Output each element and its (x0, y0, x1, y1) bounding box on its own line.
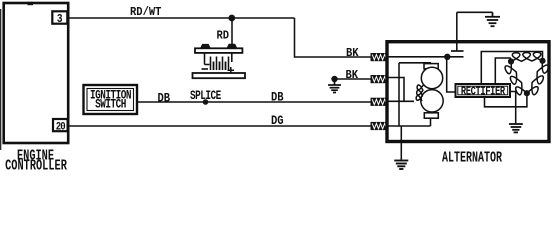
wire corner RD/WT down to BK row (295, 18, 372, 57)
stator winding left coil (505, 62, 527, 95)
wire BK1 inside to capacitor junction (388, 56, 464, 58)
node junction dot on RD/WT wire (228, 15, 235, 22)
stator winding top coil (511, 52, 543, 61)
pin 20 box (53, 119, 68, 134)
wire bottom brush to DG (430, 118, 432, 126)
ground top right (485, 12, 500, 26)
wire junction down to rectifier left (447, 57, 456, 92)
slip ring top circle (421, 67, 442, 88)
svg-text:SWITCH: SWITCH (95, 97, 126, 112)
svg-text:BK: BK (346, 48, 359, 61)
capacitor to ground (451, 12, 464, 51)
rotor feed wire from DB/BK2 (388, 63, 430, 126)
connector terminal BK2 (371, 75, 389, 83)
battery (193, 44, 246, 78)
wire case ground branch (400, 126, 402, 160)
stator phase wire A to rectifier (495, 58, 511, 84)
node stator vertex C dot (524, 90, 530, 96)
node capacitor junction dot (444, 54, 450, 60)
svg-text:ALTERNATOR: ALTERNATOR (442, 149, 502, 167)
wire RD from junction down to battery (231, 18, 233, 44)
ground under alternator (394, 161, 408, 170)
wire BK2 inside (388, 78, 404, 102)
rectifier output to ground (510, 92, 516, 124)
node stator vertex B dot (539, 58, 545, 64)
stator winding right coil (527, 61, 549, 95)
wire to top brush (399, 63, 430, 65)
rectifier box (456, 84, 511, 99)
ignition switch box (84, 85, 138, 114)
svg-text:RD: RD (217, 30, 230, 43)
wire DG from pin 20 to connector (68, 125, 371, 127)
wire DB inside (388, 100, 414, 102)
node stator vertex A dot (508, 58, 514, 64)
ground under BK2 dot (328, 79, 341, 93)
splice junction dot (203, 99, 209, 105)
svg-text:DB: DB (158, 92, 171, 106)
wire to top ground (457, 11, 493, 13)
node BK2 junction dot with ground (331, 76, 337, 82)
label ENGINE CONTROLLER (5, 147, 67, 175)
svg-text:3: 3 (57, 13, 63, 26)
ground under rectifier (509, 124, 523, 132)
svg-text:20: 20 (56, 122, 66, 134)
svg-text:BK: BK (346, 70, 359, 83)
connector terminal DG (371, 122, 389, 130)
engine controller box (28, 2, 34, 5)
scan edge artifact line (0, 9, 2, 150)
connector terminal DB (371, 98, 389, 106)
svg-text:DB: DB (271, 91, 284, 105)
brush bottom (424, 113, 438, 118)
slip ring bottom circle (421, 90, 443, 112)
wire BK2 from dot to connector (335, 78, 372, 80)
wire vertical rotor left (398, 63, 400, 126)
wire DB from ignition switch to connector (137, 101, 371, 103)
stator phase wire B to rectifier (481, 52, 542, 85)
brush top (424, 64, 438, 69)
alternator box (387, 42, 549, 142)
svg-text:DG: DG (271, 114, 284, 128)
connector terminal BK1 (371, 53, 389, 61)
field coil loops (416, 85, 423, 101)
svg-text:RD/WT: RD/WT (130, 7, 162, 20)
wire DG inside (388, 125, 431, 127)
pin 3 box (52, 11, 67, 26)
stator phase wire C to rectifier bottom (485, 95, 527, 107)
wire RD/WT from pin 3 to corner (68, 17, 295, 19)
svg-text:RECTIFIER: RECTIFIER (461, 85, 506, 99)
svg-text:CONTROLLER: CONTROLLER (5, 157, 67, 172)
